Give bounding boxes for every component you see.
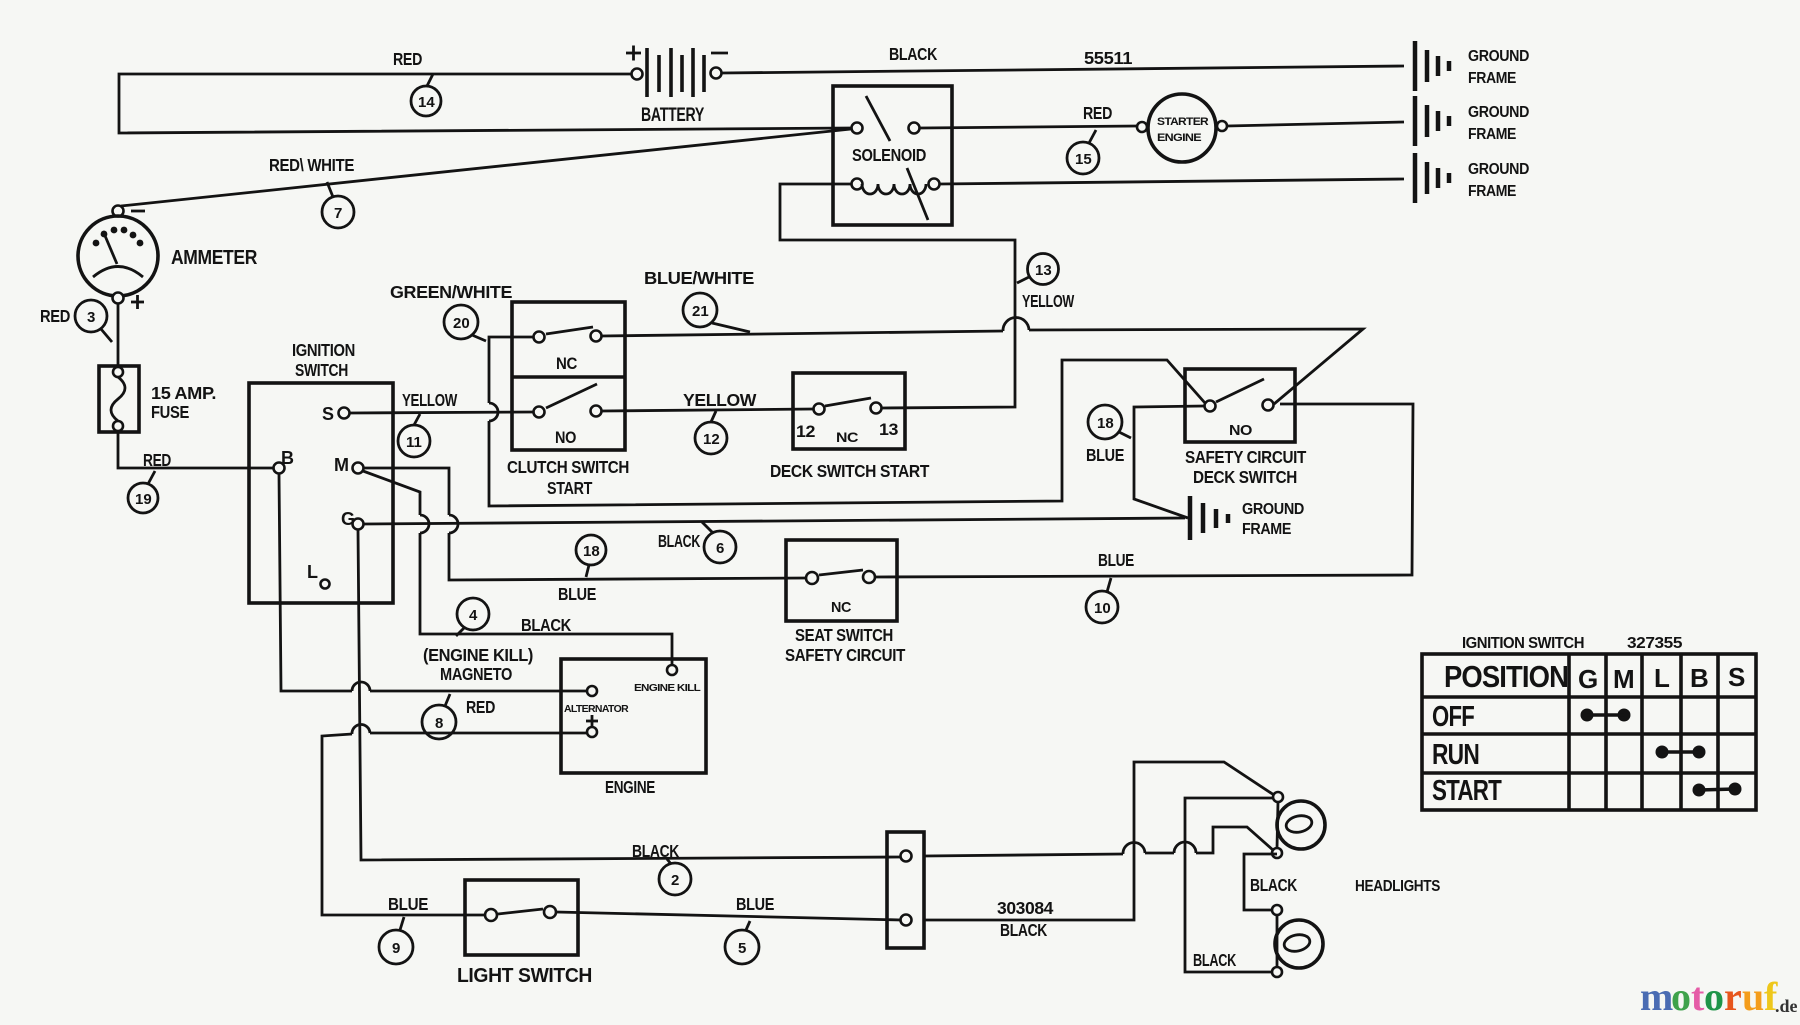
svg-text:SAFETY CIRCUIT: SAFETY CIRCUIT <box>1185 447 1307 467</box>
ground frame 3 <box>1415 153 1529 203</box>
wire 10 BLUE seat switch to safety deck switch <box>875 404 1413 623</box>
label HEADLIGHTS <box>1355 878 1440 895</box>
svg-text:S: S <box>1728 662 1745 692</box>
svg-text:7: 7 <box>334 205 342 222</box>
svg-text:55511: 55511 <box>1084 48 1133 68</box>
svg-text:FUSE: FUSE <box>151 402 189 422</box>
wire 303084 BLACK connector to headlight <box>924 762 1274 940</box>
svg-text:6: 6 <box>716 540 724 557</box>
svg-text:327355: 327355 <box>1627 635 1683 652</box>
svg-text:.de: .de <box>1775 996 1798 1016</box>
svg-text:13: 13 <box>1035 262 1052 279</box>
wire 6 BLACK ignition G to ground frame 4 <box>364 518 1185 563</box>
svg-text:NC: NC <box>831 599 852 616</box>
svg-text:u: u <box>1742 974 1764 1019</box>
starter engine motor <box>1137 94 1227 162</box>
svg-text:POSITION: POSITION <box>1444 659 1568 694</box>
svg-text:YELLOW: YELLOW <box>683 390 757 410</box>
wire BLACK jumper between headlights <box>1244 854 1298 910</box>
svg-text:L: L <box>307 562 318 582</box>
ground frame 1 <box>1415 41 1529 91</box>
svg-text:(ENGINE KILL): (ENGINE KILL) <box>423 645 533 665</box>
wire 3 RED ammeter to fuse <box>40 300 118 366</box>
svg-text:RED: RED <box>393 49 422 69</box>
wire 18 BLUE ignition M to seat switch <box>364 468 807 604</box>
ammeter M1 <box>78 206 258 310</box>
ground frame 2 <box>1415 96 1529 146</box>
svg-text:CLUTCH SWITCH: CLUTCH SWITCH <box>507 457 629 477</box>
clutch switch start SW2 <box>507 302 629 498</box>
ignition switch SW1 <box>249 340 393 603</box>
wire starter to ground frame 2 <box>1227 122 1404 126</box>
svg-text:S: S <box>322 404 334 424</box>
svg-text:5: 5 <box>738 940 746 957</box>
svg-text:12: 12 <box>703 431 720 448</box>
svg-text:L: L <box>1654 663 1670 693</box>
svg-text:BLACK: BLACK <box>1250 875 1298 895</box>
battery <box>626 46 728 127</box>
svg-text:RED: RED <box>40 306 70 326</box>
svg-text:SWITCH: SWITCH <box>295 360 348 380</box>
svg-text:m: m <box>1640 974 1673 1019</box>
svg-text:NC: NC <box>836 429 858 445</box>
svg-text:8: 8 <box>435 715 443 732</box>
svg-text:ENGINE KILL: ENGINE KILL <box>634 683 701 694</box>
svg-text:19: 19 <box>135 491 152 508</box>
ground frame 4 <box>1190 496 1304 540</box>
wire 9 BLUE alternator to light switch <box>322 724 587 964</box>
svg-text:BLUE/WHITE: BLUE/WHITE <box>644 268 754 288</box>
headlight connector <box>887 832 924 948</box>
svg-text:3: 3 <box>87 309 95 326</box>
svg-text:BLUE: BLUE <box>388 894 428 914</box>
svg-text:MAGNETO: MAGNETO <box>440 664 512 684</box>
svg-text:BLACK: BLACK <box>632 841 680 861</box>
svg-text:LIGHT SWITCH: LIGHT SWITCH <box>457 965 592 987</box>
svg-text:RUN: RUN <box>1432 739 1479 771</box>
svg-text:SEAT SWITCH: SEAT SWITCH <box>795 625 893 645</box>
svg-text:GROUND: GROUND <box>1468 161 1529 178</box>
svg-text:21: 21 <box>692 303 709 320</box>
svg-text:NC: NC <box>556 354 577 373</box>
svg-text:SOLENOID: SOLENOID <box>852 145 926 165</box>
headlight bottom <box>1272 905 1323 977</box>
svg-text:15 AMP.: 15 AMP. <box>151 383 216 403</box>
fuse F1 15 AMP <box>99 366 216 432</box>
svg-text:BLACK: BLACK <box>889 44 938 64</box>
wire 13 YELLOW deck switch to solenoid coil <box>780 184 1075 408</box>
svg-text:13: 13 <box>879 420 898 439</box>
svg-text:GROUND: GROUND <box>1468 48 1529 65</box>
svg-text:DECK SWITCH: DECK SWITCH <box>1193 467 1297 487</box>
svg-text:GROUND: GROUND <box>1468 104 1529 121</box>
svg-text:DECK SWITCH START: DECK SWITCH START <box>770 461 930 481</box>
svg-text:HEADLIGHTS: HEADLIGHTS <box>1355 878 1440 895</box>
svg-text:r: r <box>1724 974 1742 1019</box>
ignition switch table 327355 <box>1422 635 1756 810</box>
svg-text:YELLOW: YELLOW <box>1022 291 1075 311</box>
svg-text:BLACK: BLACK <box>1193 950 1237 970</box>
svg-text:RED\ WHITE: RED\ WHITE <box>269 155 354 175</box>
deck switch start SW3 <box>770 373 930 481</box>
svg-text:IGNITION SWITCH: IGNITION SWITCH <box>1462 635 1584 652</box>
wire BLACK headlight chain <box>1185 798 1277 972</box>
svg-text:RED: RED <box>466 697 495 717</box>
svg-text:M: M <box>1613 664 1634 694</box>
engine box with alternator and engine kill terminals <box>561 659 706 797</box>
svg-text:BATTERY: BATTERY <box>641 105 705 126</box>
svg-text:RED: RED <box>1083 103 1112 123</box>
svg-text:OFF: OFF <box>1432 701 1474 733</box>
svg-text:20: 20 <box>453 315 470 332</box>
seat switch safety circuit SW5 <box>785 540 906 665</box>
svg-text:18: 18 <box>1097 415 1114 432</box>
wire 4 BLACK ignition M to magneto engine kill <box>363 471 672 684</box>
wire 12 YELLOW clutch NO to deck switch <box>602 390 813 454</box>
wire 7 RED/WHITE ammeter to solenoid <box>121 129 851 228</box>
svg-text:ENGINE: ENGINE <box>1157 132 1201 144</box>
svg-text:FRAME: FRAME <box>1468 126 1516 143</box>
svg-text:FRAME: FRAME <box>1468 183 1516 200</box>
label BLACK lower headlight wire <box>1193 950 1237 970</box>
svg-text:START: START <box>547 478 593 498</box>
svg-text:BLACK: BLACK <box>521 615 572 635</box>
wire 2 BLACK ignition G to headlight connector <box>358 530 1273 895</box>
wire 11 YELLOW ignition S to clutch switch <box>350 390 533 457</box>
wire solenoid coil to ground frame 3 <box>940 179 1404 184</box>
svg-text:RED: RED <box>143 450 171 470</box>
svg-text:4: 4 <box>469 607 478 624</box>
wire 18 BLUE safety deck switch to ground frame 4 <box>1086 405 1204 518</box>
svg-text:START: START <box>1432 775 1502 807</box>
svg-text:2: 2 <box>671 872 679 889</box>
svg-text:BLUE: BLUE <box>1098 550 1134 570</box>
svg-text:IGNITION: IGNITION <box>292 340 355 360</box>
svg-text:SAFETY CIRCUIT: SAFETY CIRCUIT <box>785 645 906 665</box>
safety circuit deck switch SW4 <box>1185 369 1307 487</box>
svg-text:15: 15 <box>1075 151 1092 168</box>
wire 20 GREEN/WHITE clutch NC to safety deck switch <box>390 282 1205 506</box>
svg-text:18: 18 <box>583 543 600 560</box>
svg-text:BLUE: BLUE <box>558 584 596 604</box>
wire 5 BLUE light switch to connector <box>556 894 902 964</box>
wire 19 RED fuse to ignition B <box>118 432 274 513</box>
svg-text:ALTERNATOR: ALTERNATOR <box>564 704 629 715</box>
svg-text:FRAME: FRAME <box>1468 70 1516 87</box>
svg-text:12: 12 <box>796 422 815 441</box>
svg-text:YELLOW: YELLOW <box>402 390 458 410</box>
svg-text:t: t <box>1691 974 1705 1019</box>
svg-text:BLUE: BLUE <box>736 894 774 914</box>
svg-text:NO: NO <box>555 428 576 447</box>
svg-text:BLACK: BLACK <box>658 531 701 551</box>
svg-text:11: 11 <box>406 434 422 451</box>
svg-text:14: 14 <box>418 94 435 111</box>
svg-text:ENGINE: ENGINE <box>605 777 655 797</box>
svg-text:o: o <box>1671 974 1691 1019</box>
svg-text:NO: NO <box>1229 422 1253 439</box>
svg-text:STARTER: STARTER <box>1157 116 1209 128</box>
svg-text:BLUE: BLUE <box>1086 445 1124 465</box>
svg-text:G: G <box>1578 664 1598 694</box>
svg-text:GREEN/WHITE: GREEN/WHITE <box>390 282 512 302</box>
headlight top <box>1272 792 1325 858</box>
wire 8 RED ignition B to alternator <box>279 474 587 739</box>
motoruf.de logo <box>1640 974 1798 1019</box>
wire BLACK 55511 battery negative to ground frame <box>722 44 1404 73</box>
svg-text:BLACK: BLACK <box>1000 920 1048 940</box>
wire 14 RED battery positive to solenoid <box>119 49 851 133</box>
svg-text:303084: 303084 <box>997 898 1054 918</box>
svg-text:GROUND: GROUND <box>1242 501 1304 518</box>
svg-text:M: M <box>334 455 349 475</box>
solenoid U1 <box>833 86 952 225</box>
svg-text:FRAME: FRAME <box>1242 521 1291 538</box>
svg-text:10: 10 <box>1094 600 1111 617</box>
svg-text:AMMETER: AMMETER <box>171 247 258 269</box>
svg-text:9: 9 <box>392 940 400 957</box>
light switch SW6 <box>457 880 592 987</box>
svg-text:B: B <box>1690 663 1708 693</box>
wire 15 RED solenoid to starter <box>920 103 1137 174</box>
svg-text:o: o <box>1704 974 1724 1019</box>
wire 21 BLUE/WHITE clutch NC to safety deck switch right <box>601 268 1363 404</box>
